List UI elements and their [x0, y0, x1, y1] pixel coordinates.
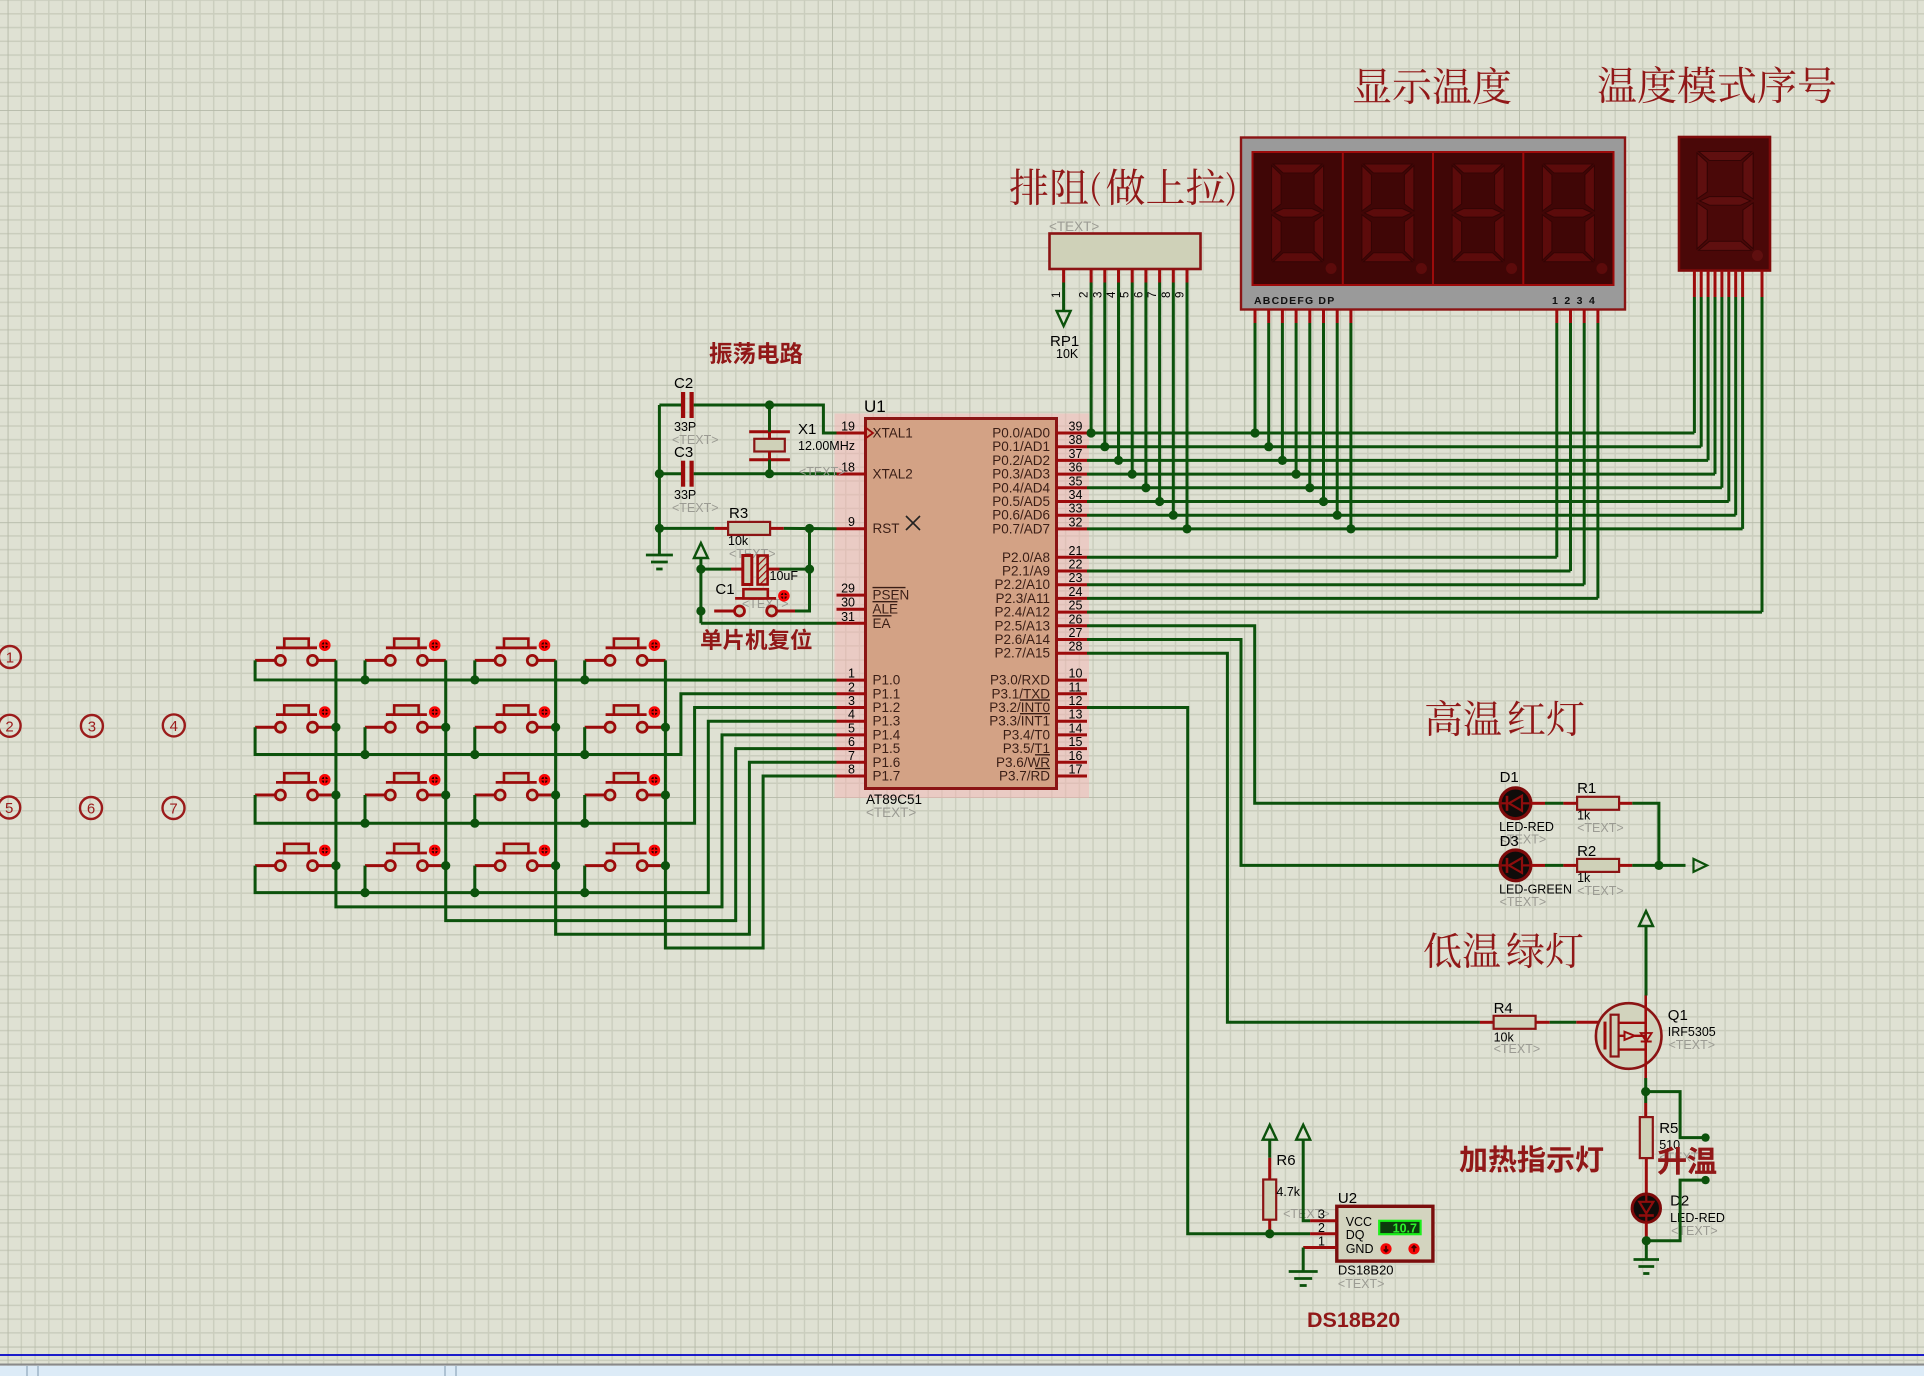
U1 pin 32 P0.7/AD7 [992, 515, 1087, 536]
svg-text:13: 13 [1069, 708, 1083, 722]
wire keypad row2 bus to P1.1 [255, 694, 836, 755]
DS1 segment pin A wire to P0.0 [1250, 310, 1259, 438]
DS1 segment pin G wire to P0.6 [1333, 310, 1342, 520]
svg-text:28: 28 [1069, 640, 1083, 654]
svg-text:R5: R5 [1659, 1120, 1678, 1137]
wire net P0.1 [1087, 445, 1701, 448]
svg-text:EA: EA [873, 616, 891, 631]
keypad button row4 col1 [255, 844, 336, 871]
svg-text:31: 31 [841, 610, 855, 624]
wire junction to right pad upper [1646, 1092, 1709, 1142]
ground for oscillator [646, 554, 673, 557]
wire net P0.3 [1087, 473, 1715, 476]
svg-text:<TEXT>: <TEXT> [1577, 821, 1624, 835]
wire keypad row4 bus to P1.3 [255, 721, 836, 892]
U1 pin 30 ALE [837, 596, 899, 617]
keypad button row2 col2 [365, 705, 446, 732]
U1 pin 37 P0.2/AD2 [992, 447, 1087, 468]
svg-text:2: 2 [1318, 1221, 1325, 1235]
U1 pin 15 P3.5/T1 [1003, 735, 1087, 756]
svg-text:11: 11 [1069, 680, 1082, 694]
wire net P2.3 [1087, 597, 1598, 600]
resistor pack RP1 10K [1049, 219, 1201, 361]
wire keypad row4 col4 left contact drop [580, 866, 589, 898]
DS1 segment pin DP wire to P0.7 [1346, 310, 1355, 534]
wire D2 to ground junction [1642, 1222, 1651, 1245]
keypad button row1 col3 [475, 639, 556, 666]
DS2 pin wire to P0.2 [1707, 271, 1710, 461]
RP1 pin 2 [1079, 269, 1092, 298]
reset button [714, 589, 795, 616]
resistor R1 1k [1577, 780, 1624, 835]
wire R6 bottom to DQ net [1265, 1220, 1274, 1239]
U1 pin 9 RST [837, 515, 900, 536]
wire keypad row3 col3 left contact drop [470, 795, 479, 828]
DS2 pin wire to P0.4 [1720, 271, 1723, 488]
IC U2 DS18B20 [1337, 1190, 1433, 1291]
wire RP1 pin9 to P0.7 [1182, 283, 1191, 534]
keypad button row2 col3 [475, 705, 556, 732]
wire R3 to RST pin [784, 524, 837, 533]
U2 pin stubs and numbers [1303, 1208, 1337, 1249]
capacitor C1 10uF [715, 556, 798, 612]
svg-text:<TEXT>: <TEXT> [799, 465, 846, 479]
wire net P2.4 [1087, 611, 1762, 614]
title 显示温度 [1354, 67, 1511, 104]
svg-text:5: 5 [1120, 292, 1132, 298]
resistor R5 510 [1640, 1117, 1706, 1164]
wire Q1 source down to R5 [1641, 1078, 1650, 1117]
wire C3 right to XTAL2 [694, 472, 837, 475]
wire keypad col2 bus to P1.5 [441, 660, 836, 920]
resistor R4 10k [1480, 1000, 1550, 1056]
DS2 pin wire to P0.0 [1693, 271, 1696, 434]
wire R1 right to output node [1619, 803, 1659, 865]
U1 pin 13 P3.3/INT1 [989, 708, 1087, 729]
svg-text:30: 30 [841, 596, 855, 610]
svg-text:1: 1 [1318, 1234, 1325, 1248]
svg-text:<TEXT>: <TEXT> [1577, 884, 1624, 898]
U1 pin 10 P3.0/RXD [990, 667, 1087, 688]
svg-text:12: 12 [1069, 694, 1083, 708]
U1 pin 14 P3.4/T0 [1003, 721, 1087, 742]
svg-text:33P: 33P [674, 420, 696, 434]
node marker circled 1 [0, 646, 21, 668]
U1 pin 31 EA [837, 610, 892, 631]
wire RP1 pin4 to P0.2 [1114, 283, 1123, 466]
wire net P0.5 [1087, 500, 1729, 503]
wire keypad row1 col2 left contact drop [360, 660, 369, 684]
ground for D2 [1634, 1258, 1660, 1261]
capacitor C2 33P [672, 375, 719, 447]
keypad button row1 col1 [255, 639, 336, 666]
U1 pin 36 P0.3/AD3 [992, 461, 1087, 482]
U1 pin 8 P1.7 [837, 763, 901, 784]
keypad button row2 col4 [585, 705, 666, 732]
svg-text:P1.7: P1.7 [873, 769, 901, 784]
node marker circled 5 [0, 797, 20, 819]
svg-text:4: 4 [848, 708, 855, 722]
U1 pin 19 XTAL1 [837, 420, 913, 441]
svg-text:2: 2 [1079, 292, 1091, 298]
svg-text:D3: D3 [1500, 833, 1519, 850]
node marker circled 6 [80, 797, 102, 819]
resistor R6 4.7k [1263, 1152, 1329, 1221]
DS2 pin wire to P0.1 [1700, 271, 1703, 447]
transistor Q1 IRF5305 PMOS [1596, 995, 1716, 1078]
DS1 segment pin D wire to P0.3 [1292, 310, 1301, 479]
U1 pin 1 P1.0 [837, 667, 901, 688]
wire C1 left [701, 568, 743, 571]
svg-text:R4: R4 [1494, 1000, 1513, 1017]
keypad button row3 col2 [365, 773, 446, 800]
title 升温 [1658, 1147, 1716, 1175]
svg-text:DS18B20: DS18B20 [1338, 1263, 1394, 1278]
U1 pin 34 P0.5/AD5 [992, 488, 1087, 509]
display DS1 4-digit 7-segment [1241, 138, 1625, 310]
wire to ground below D2 [1645, 1241, 1648, 1260]
svg-text:9: 9 [848, 515, 855, 529]
svg-text:6: 6 [848, 735, 855, 749]
wire keypad row2 col3 left contact drop [470, 727, 479, 759]
U1 pin 2 P1.1 [837, 680, 901, 701]
wire keypad row2 col4 left contact drop [580, 727, 589, 759]
ground for U2 [1289, 1270, 1318, 1273]
DS1 segment pin E wire to P0.4 [1305, 310, 1314, 493]
power arrow VCC for R6 [1263, 1125, 1277, 1180]
wire net P0.7 [1087, 527, 1743, 530]
svg-text:IRF5305: IRF5305 [1668, 1025, 1716, 1039]
svg-text:D1: D1 [1500, 769, 1519, 786]
U1 pin 33 P0.6/AD6 [992, 502, 1087, 523]
svg-text:8: 8 [1161, 292, 1173, 298]
window bottom strip [0, 1364, 1924, 1366]
title 排阻(做上拉) [1010, 168, 1234, 206]
svg-text:<TEXT>: <TEXT> [1494, 1042, 1541, 1056]
wire keypad row4 col2 left contact drop [360, 866, 369, 898]
svg-text:5: 5 [5, 800, 13, 817]
svg-text:10K: 10K [1056, 347, 1079, 361]
svg-text:21: 21 [1069, 544, 1083, 558]
DS2 pin wire to P0.3 [1714, 271, 1717, 475]
svg-text:C1: C1 [715, 581, 734, 598]
wire R5 to D2 [1645, 1159, 1648, 1195]
svg-text:DQ: DQ [1346, 1228, 1365, 1242]
svg-text:P2.7/A15: P2.7/A15 [994, 646, 1050, 661]
U1 pin 18 XTAL2 [837, 461, 913, 482]
RP1 pin 6 [1133, 269, 1146, 298]
svg-text:8: 8 [848, 763, 855, 777]
wire P2.5 to D1 [1087, 626, 1500, 804]
wire keypad row3 bus to P1.2 [255, 708, 836, 824]
svg-text:3: 3 [1318, 1208, 1325, 1222]
svg-text:5: 5 [848, 721, 855, 735]
RP1 pin 1 [1051, 269, 1064, 298]
svg-text:4: 4 [170, 718, 178, 735]
svg-text:X1: X1 [798, 421, 816, 438]
svg-text:R1: R1 [1577, 780, 1596, 797]
svg-text:<TEXT>: <TEXT> [1500, 895, 1547, 909]
DS2 pin wire to P0.5 [1727, 271, 1730, 502]
wire keypad col3 bus to P1.6 [551, 660, 837, 934]
wire RP1 pin5 to P0.3 [1128, 283, 1137, 479]
wire P2.7 to R4 [1087, 653, 1480, 1022]
svg-text:3: 3 [848, 694, 855, 708]
LED D3 LED-GREEN [1499, 833, 1572, 909]
keypad button row4 col2 [365, 844, 446, 871]
wire keypad row3 col4 left contact drop [580, 795, 589, 828]
RP1 pin 3 [1092, 269, 1105, 298]
keypad button row4 col3 [475, 844, 556, 871]
wire U2 GND to ground [1302, 1248, 1305, 1272]
svg-text:19: 19 [841, 420, 855, 434]
wire C3 left to vertical [659, 472, 681, 475]
svg-text:P3.7/RD: P3.7/RD [999, 769, 1050, 784]
U1 pin 12 P3.2/INT0 [989, 694, 1087, 715]
keypad button row3 col3 [475, 773, 556, 800]
U1 pin 3 P1.2 [837, 694, 901, 715]
keypad button row2 col1 [255, 705, 336, 732]
U1 pin 17 P3.7/RD [999, 763, 1087, 784]
wire R4 to Q1 gate [1550, 1021, 1605, 1024]
wire keypad row2 col2 left contact drop [360, 727, 369, 759]
wire net P2.0 [1087, 556, 1557, 559]
wire net P0.2 [1087, 459, 1708, 462]
svg-text:2: 2 [848, 680, 855, 694]
RP1 pin 8 [1161, 269, 1174, 298]
wire C1 right [768, 568, 810, 571]
wire net P2.2 [1087, 583, 1584, 586]
keypad button row4 col4 [585, 844, 666, 871]
svg-text:XTAL2: XTAL2 [873, 467, 913, 482]
wire P3.2/INT0 to DQ [1087, 708, 1310, 1234]
power arrow VCC for U2 [1296, 1125, 1310, 1221]
svg-text:ALE: ALE [873, 602, 899, 617]
display DS2 single 7-segment [1679, 137, 1770, 271]
svg-text:7: 7 [169, 801, 177, 818]
svg-text:R2: R2 [1577, 843, 1596, 860]
svg-text:29: 29 [841, 582, 855, 596]
svg-text:10k: 10k [728, 534, 749, 548]
DS2 common pin wire to P2.4 [1761, 271, 1764, 613]
svg-text:27: 27 [1069, 626, 1083, 640]
svg-text:14: 14 [1069, 721, 1083, 735]
wire C2 left to vertical [659, 404, 681, 407]
wire keypad row3 col2 left contact drop [360, 795, 369, 828]
svg-text:7: 7 [848, 749, 855, 763]
wire net P0.6 [1087, 514, 1736, 517]
U1 pin 16 P3.6/WR [996, 749, 1087, 770]
wire keypad col4 bus to P1.7 [661, 660, 837, 948]
wire junction to right pad lower [1646, 1176, 1709, 1241]
svg-text:<TEXT>: <TEXT> [1669, 1038, 1716, 1052]
wire C2 right to XTAL1 [694, 405, 837, 433]
svg-text:17: 17 [1069, 763, 1083, 777]
svg-text:1234: 1234 [1552, 295, 1601, 307]
svg-text:PSEN: PSEN [873, 588, 910, 603]
keypad button row3 col1 [255, 773, 336, 800]
wire keypad row1 col4 left contact drop [580, 660, 589, 684]
wire RP1 pin8 to P0.6 [1169, 283, 1178, 520]
svg-text:10: 10 [1069, 667, 1083, 681]
svg-text:4: 4 [1106, 291, 1118, 298]
DS1 digit pin 1 wire to P2.0 [1555, 310, 1558, 558]
U1 pin 11 P3.1/TXD [991, 680, 1087, 701]
RP1 pin1 wire to terminal [1057, 283, 1071, 327]
keypad button row1 col4 [585, 639, 666, 666]
svg-text:32: 32 [1069, 515, 1083, 529]
svg-text:26: 26 [1069, 612, 1083, 626]
wire P2.6 to D3 [1087, 640, 1500, 866]
DS1 segment pin C wire to P0.2 [1278, 310, 1287, 466]
capacitor C3 33P [672, 444, 719, 515]
DS1 digit pin 3 wire to P2.2 [1583, 310, 1586, 585]
svg-text:16: 16 [1069, 749, 1083, 763]
svg-text:24: 24 [1069, 585, 1083, 599]
svg-text:10.7: 10.7 [1393, 1221, 1417, 1235]
svg-text:ABCDEFG DP: ABCDEFG DP [1254, 295, 1335, 307]
svg-text:C3: C3 [674, 444, 693, 461]
U1 pin 21 P2.0/A8 [1002, 544, 1087, 565]
wire crystal top to C2 net [765, 400, 774, 431]
U1 pin 39 P0.0/AD0 [992, 420, 1087, 441]
svg-text:U2: U2 [1338, 1190, 1357, 1207]
svg-text:12.00MHz: 12.00MHz [798, 439, 855, 453]
wire keypad row4 col3 left contact drop [470, 866, 479, 898]
wire keypad row1 col3 left contact drop [470, 660, 479, 684]
LED D1 LED-RED [1499, 769, 1554, 847]
wire R2 right to output arrow [1619, 859, 1707, 872]
wire left vertical C2/C3 to ground [655, 405, 664, 555]
DS1 segment pin B wire to P0.1 [1264, 310, 1273, 452]
svg-text:P0.7/AD7: P0.7/AD7 [992, 521, 1050, 536]
U1 pin 26 P2.5/A13 [994, 612, 1087, 633]
title 单片机复位 [701, 629, 811, 651]
U1 pin 5 P1.4 [837, 721, 901, 742]
svg-text:1: 1 [6, 650, 14, 667]
svg-text:U1: U1 [864, 397, 886, 416]
sheet border blue line [0, 1354, 1924, 1356]
svg-text:7: 7 [1147, 292, 1159, 298]
svg-text:4.7k: 4.7k [1276, 1185, 1300, 1199]
wire D1 to R1 [1531, 802, 1577, 805]
title overlay 升温 [1658, 1147, 1716, 1175]
svg-text:VCC: VCC [1346, 1215, 1372, 1229]
svg-text:RST: RST [873, 521, 900, 536]
power arrow VCC for reset [694, 543, 708, 623]
svg-text:R6: R6 [1276, 1152, 1295, 1169]
node marker circled 7 [163, 797, 185, 819]
svg-text:37: 37 [1069, 447, 1083, 461]
svg-text:33: 33 [1069, 502, 1083, 516]
svg-text:R3: R3 [729, 505, 748, 522]
node marker circled 4 [163, 714, 185, 736]
svg-text:34: 34 [1069, 488, 1083, 502]
svg-text:15: 15 [1069, 735, 1083, 749]
svg-text:1: 1 [1051, 292, 1063, 298]
svg-text:DS18B20: DS18B20 [1307, 1308, 1400, 1332]
wire RP1 pin6 to P0.4 [1141, 283, 1150, 493]
svg-text:<TEXT>: <TEXT> [1338, 1277, 1385, 1291]
wire keypad col1 bus to P1.4 [331, 660, 836, 907]
svg-text:3: 3 [88, 719, 96, 736]
svg-text:C2: C2 [674, 375, 693, 392]
wire net P2.1 [1087, 570, 1571, 573]
U1 pin 35 P0.4/AD4 [992, 474, 1087, 495]
DS2 pin wire to P0.6 [1734, 271, 1737, 516]
svg-text:1: 1 [848, 667, 855, 681]
svg-text:38: 38 [1069, 433, 1083, 447]
svg-text:2: 2 [5, 718, 13, 735]
RP1 pin 7 [1147, 269, 1160, 298]
U1 pin 27 P2.6/A14 [994, 626, 1087, 647]
wire keypad row1 bus to P1.0 [255, 660, 836, 680]
U1 pin 4 P1.3 [837, 708, 901, 729]
U1 pin 38 P0.1/AD1 [992, 433, 1087, 454]
wire D3 to R2 [1531, 864, 1577, 867]
wire EA from VCC vertical [701, 622, 837, 625]
power arrow VCC for Q1 drain [1639, 911, 1653, 996]
title 低温 绿灯 [1424, 932, 1582, 968]
wire RP1 pin3 to P0.1 [1100, 283, 1109, 452]
svg-text:39: 39 [1069, 420, 1083, 434]
svg-text:GND: GND [1346, 1242, 1374, 1256]
svg-text:1k: 1k [1577, 871, 1591, 885]
svg-text:Q1: Q1 [1668, 1007, 1688, 1024]
node marker circled 3 [81, 715, 103, 737]
wire net P0.4 [1087, 486, 1722, 489]
title 温度模式序号 [1598, 66, 1835, 103]
RP1 pin 5 [1120, 269, 1133, 298]
crystal X1 12.00MHz [749, 421, 855, 460]
U1 pin 24 P2.3/A11 [995, 585, 1087, 606]
svg-text:36: 36 [1069, 461, 1083, 475]
wire RP1 pin2 to P0.0 [1087, 283, 1096, 438]
DS1 digit pin 4 wire to P2.3 [1596, 310, 1599, 599]
U1 pin 7 P1.6 [837, 749, 901, 770]
svg-text:3: 3 [1092, 292, 1104, 298]
keypad button row3 col4 [585, 773, 666, 800]
DS2 pin wire to P0.7 [1741, 271, 1744, 529]
svg-text:35: 35 [1069, 474, 1083, 488]
title 高温 红灯 [1426, 700, 1583, 736]
svg-text:XTAL1: XTAL1 [873, 426, 913, 441]
svg-text:33P: 33P [674, 488, 696, 502]
svg-text:6: 6 [87, 801, 95, 818]
LED D2 LED-RED vertical [1632, 1193, 1725, 1239]
keypad button row1 col2 [365, 639, 446, 666]
svg-text:25: 25 [1069, 599, 1083, 613]
svg-text:LED-RED: LED-RED [1670, 1211, 1725, 1225]
svg-text:<TEXT>: <TEXT> [672, 501, 719, 515]
node marker circled 2 [0, 715, 21, 737]
svg-text:<TEXT>: <TEXT> [866, 805, 916, 820]
RP1 pin 9 [1175, 269, 1188, 298]
title 加热指示灯 [1460, 1145, 1604, 1172]
wire crystal bottom to C3 net [765, 460, 774, 479]
DS1 digit pin 2 wire to P2.1 [1569, 310, 1572, 572]
title 振荡电路 [710, 342, 803, 364]
svg-text:22: 22 [1069, 558, 1083, 572]
RP1 pin 4 [1106, 269, 1119, 298]
U1 pin 23 P2.2/A10 [994, 571, 1087, 592]
resistor R2 1k [1577, 843, 1624, 898]
resistor R3 10k [659, 505, 783, 561]
U1 pin 28 P2.7/A15 [994, 640, 1087, 661]
svg-text:23: 23 [1069, 571, 1083, 585]
U1 pin 29 PSEN [837, 582, 910, 603]
wire RP1 pin7 to P0.5 [1155, 283, 1164, 507]
